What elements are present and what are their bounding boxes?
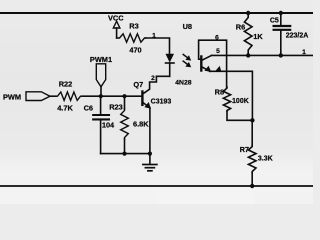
svg-text:U8: U8 xyxy=(183,22,192,31)
svg-text:PWM1: PWM1 xyxy=(90,55,112,64)
svg-text:470: 470 xyxy=(129,45,141,54)
svg-text:1K: 1K xyxy=(253,32,263,41)
svg-text:1: 1 xyxy=(302,49,306,56)
svg-text:C3193: C3193 xyxy=(151,98,172,105)
svg-text:R3: R3 xyxy=(129,22,138,31)
svg-text:VCC: VCC xyxy=(108,14,124,23)
svg-text:R8: R8 xyxy=(215,87,224,96)
svg-text:1: 1 xyxy=(152,32,156,39)
svg-text:2: 2 xyxy=(151,75,155,82)
svg-text:R23: R23 xyxy=(109,102,123,111)
svg-text:3.3K: 3.3K xyxy=(258,156,273,163)
svg-text:4.7K: 4.7K xyxy=(57,104,73,113)
svg-text:C5: C5 xyxy=(270,17,279,24)
svg-text:104: 104 xyxy=(102,121,115,130)
svg-text:C6: C6 xyxy=(84,104,93,113)
svg-text:4N28: 4N28 xyxy=(175,79,191,86)
svg-text:5: 5 xyxy=(216,48,220,55)
svg-text:R6: R6 xyxy=(236,23,245,32)
svg-text:R7: R7 xyxy=(240,145,249,154)
svg-text:6: 6 xyxy=(215,34,219,41)
svg-text:100K: 100K xyxy=(232,98,249,105)
svg-text:223/2A: 223/2A xyxy=(286,33,309,40)
svg-text:Q7: Q7 xyxy=(133,80,143,89)
svg-text:R22: R22 xyxy=(59,80,73,89)
svg-text:PWM: PWM xyxy=(3,92,21,101)
svg-text:6.8K: 6.8K xyxy=(133,119,149,128)
